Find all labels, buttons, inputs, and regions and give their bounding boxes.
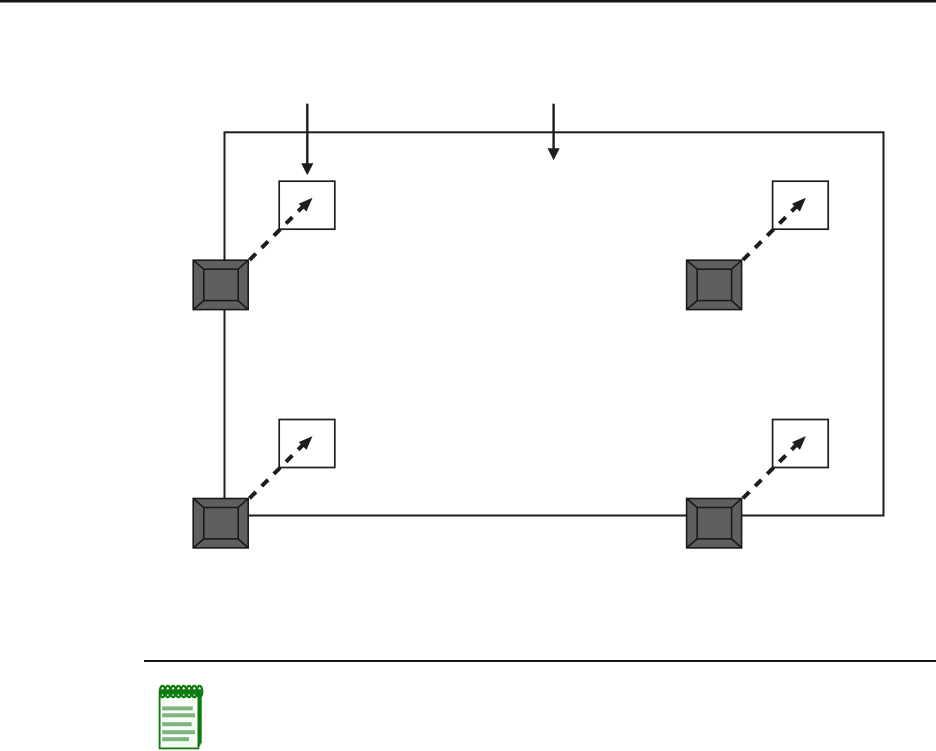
panel outline rectangle — [225, 132, 884, 515]
page body — [160, 693, 199, 749]
text lines — [162, 706, 195, 741]
footnote separator rule — [144, 660, 936, 662]
unit top-right — [687, 181, 829, 309]
unit bottom-left — [193, 420, 335, 548]
arrow down left (pointer 1) — [301, 104, 313, 176]
note icon (spiral notepad) — [160, 686, 203, 749]
spiral coils — [160, 686, 203, 697]
unit top-left — [193, 181, 335, 309]
top header rule — [0, 0, 936, 3]
arrow down right (pointer 2) — [548, 104, 560, 161]
unit bottom-right — [687, 420, 829, 548]
top binding strip — [160, 689, 202, 694]
right spine shadow — [198, 691, 201, 748]
